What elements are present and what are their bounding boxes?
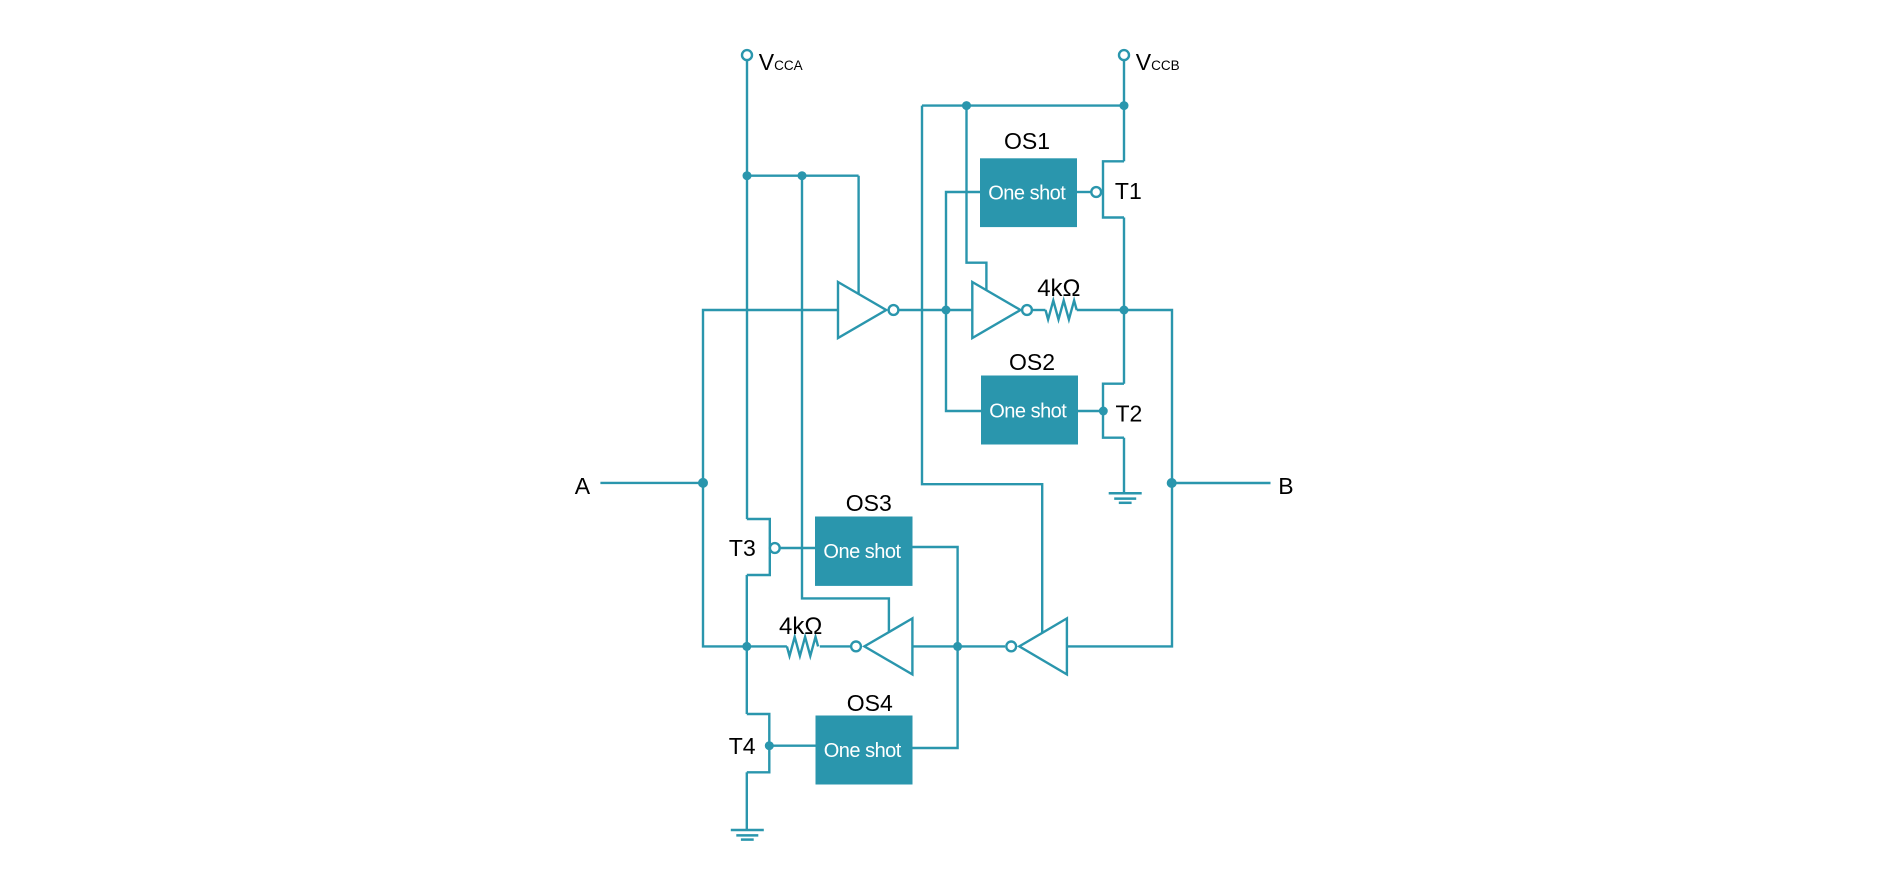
junction dot node B: [1167, 478, 1177, 488]
terminal VCCA: [742, 50, 752, 60]
svg-text:One shot: One shot: [988, 183, 1066, 205]
junction dot T1 T2 node: [1120, 306, 1129, 315]
wire T3 source to T4 drain: [746, 575, 748, 714]
wire OS2 output to T2 gate: [1078, 410, 1103, 412]
transistor T3 body: [747, 519, 770, 575]
svg-text:B: B: [1278, 473, 1293, 499]
inverter U4 output bubble: [1006, 642, 1016, 652]
svg-text:OS1: OS1: [1004, 128, 1050, 154]
transistor T1 body: [1103, 161, 1124, 217]
wire T3 gate to OS3 input: [780, 547, 815, 549]
wire branch x=922 down to inverter U4 supply: [922, 106, 1042, 633]
inverter U4: [1019, 618, 1067, 674]
junction dot top rail x=966.5: [962, 101, 971, 110]
one shot OS2 box: [981, 376, 1078, 445]
transistor T1 source lead: [1123, 218, 1125, 311]
junction dot T4 gate: [765, 741, 774, 750]
wire lower resistor R2 to inverter U3 bubble: [820, 645, 851, 647]
wire T4 gate to OS4 input: [769, 745, 815, 747]
transistor T2 source lead to ground: [1123, 438, 1125, 494]
inverter U3: [864, 618, 912, 674]
svg-text:A: A: [575, 473, 591, 499]
wire VCCA horizontal rail y=176: [747, 174, 859, 176]
inverter U1 output bubble: [889, 305, 899, 315]
wire B lead: [1172, 482, 1271, 484]
svg-text:One shot: One shot: [824, 740, 902, 762]
wire OS1 and OS2 inputs from node at x=946: [946, 192, 981, 411]
transistor T3 gate bubble: [770, 543, 780, 553]
junction dot top rail x=1124: [1120, 101, 1129, 110]
wire branch x=802 down to inverter U3 supply: [802, 176, 889, 632]
svg-text:T3: T3: [729, 535, 756, 561]
wire inverter U3 input from node x=957.6: [912, 645, 1005, 647]
junction dot lower signal at T3 T4: [742, 642, 751, 651]
svg-text:4kΩ: 4kΩ: [1037, 275, 1080, 302]
one shot OS1 box: [980, 158, 1077, 227]
ground under T2: [1109, 493, 1142, 503]
svg-text:T2: T2: [1116, 401, 1143, 427]
wire branch x=966.5 to inverter U2 supply: [967, 106, 987, 291]
inverter U2 output bubble: [1022, 305, 1032, 315]
resistor R2 4k ohm zigzag: [787, 637, 818, 656]
svg-text:OS2: OS2: [1009, 349, 1055, 375]
inverter U3 output bubble: [851, 642, 861, 652]
svg-text:T1: T1: [1115, 178, 1142, 204]
junction dot node A: [698, 478, 708, 488]
svg-text:One shot: One shot: [989, 401, 1067, 423]
wire top rail y=105.6: [922, 104, 1124, 106]
junction dot T2 gate: [1099, 407, 1108, 416]
terminal VCCB: [1119, 50, 1129, 60]
ground under T4: [731, 830, 764, 840]
one shot OS4 box: [816, 716, 913, 785]
transistor T2 drain lead: [1123, 310, 1125, 384]
svg-text:OS3: OS3: [846, 490, 892, 516]
transistor T4 body: [747, 714, 770, 772]
transistor T4 source lead to ground: [746, 772, 748, 830]
wire supply to inverter U1 top: [857, 176, 859, 294]
one shot OS3 box: [815, 517, 913, 586]
svg-text:T4: T4: [729, 733, 756, 759]
wire inverter U1 output to inverter U2 input: [899, 309, 972, 311]
junction dot OS1 input tap: [942, 306, 951, 315]
svg-text:4kΩ: 4kΩ: [779, 613, 822, 640]
transistor T1 gate bubble: [1091, 187, 1101, 197]
transistor T1 drain lead: [1123, 106, 1125, 162]
transistor T2 body: [1103, 384, 1124, 438]
wire OS1 output to T1 gate: [1077, 191, 1091, 193]
wire node A vertical and input to inverter U1: [703, 310, 838, 646]
wire VCCB stub: [1123, 60, 1125, 105]
inverter U1: [838, 282, 886, 338]
resistor R1 4k ohm zigzag: [1046, 301, 1077, 320]
wire top signal over to x=1172 and down to inverter U4 input: [1067, 310, 1172, 646]
junction dot VCCA rail x=802: [798, 171, 807, 180]
wire A lead: [600, 482, 703, 484]
wire inverter U2 output to resistor R1: [1033, 309, 1046, 311]
svg-text:VCCA: VCCA: [759, 49, 803, 75]
junction dot VCCA rail left: [743, 171, 752, 180]
inverter U2: [972, 282, 1020, 338]
junction dot lower signal at x=957.6: [953, 642, 962, 651]
wire OS3 output down through node to OS4 output: [912, 547, 957, 748]
wire resistor R1 to node B column: [1077, 309, 1124, 311]
svg-text:VCCB: VCCB: [1136, 49, 1180, 75]
svg-text:OS4: OS4: [847, 690, 893, 716]
svg-text:One shot: One shot: [823, 541, 901, 563]
wire VCCA vertical down to T3: [746, 60, 748, 519]
